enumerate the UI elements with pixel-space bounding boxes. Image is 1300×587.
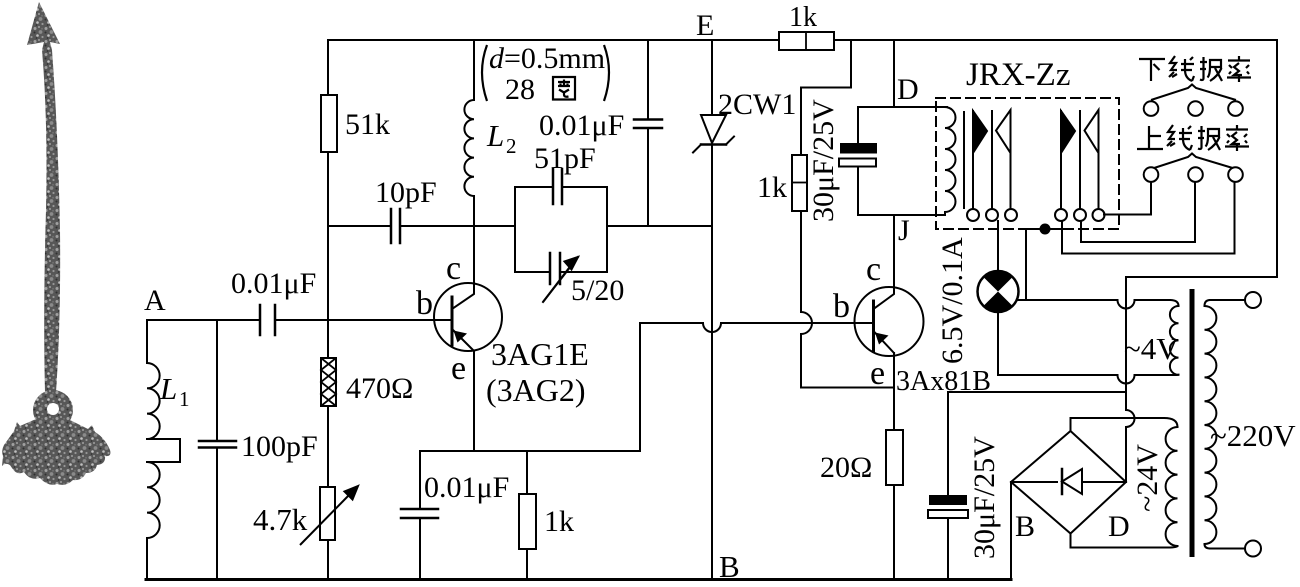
- svg-text:1k: 1k: [757, 171, 787, 204]
- svg-text:1k: 1k: [789, 2, 817, 33]
- svg-text:J: J: [898, 214, 910, 247]
- svg-text:e: e: [451, 350, 466, 387]
- svg-text:L: L: [159, 371, 177, 406]
- svg-text:10pF: 10pF: [375, 176, 437, 209]
- svg-text:D: D: [897, 73, 919, 106]
- svg-text:2CW1: 2CW1: [718, 88, 796, 121]
- svg-text:c: c: [446, 250, 461, 287]
- svg-text:(3AG2): (3AG2): [486, 372, 586, 408]
- svg-text:~24V: ~24V: [1131, 444, 1164, 512]
- svg-text:c: c: [866, 251, 881, 288]
- svg-text:A: A: [144, 284, 166, 317]
- svg-text:JRX-Zz: JRX-Zz: [966, 57, 1070, 93]
- svg-text:1: 1: [179, 387, 190, 411]
- svg-text:~220V: ~220V: [1210, 418, 1296, 453]
- svg-text:b: b: [416, 285, 433, 322]
- svg-text:6.5V/0.1A: 6.5V/0.1A: [936, 237, 969, 364]
- svg-text:100pF: 100pF: [241, 430, 318, 463]
- svg-text:470Ω: 470Ω: [346, 372, 413, 405]
- svg-text:d: d: [489, 42, 505, 75]
- svg-text:~4V: ~4V: [1124, 331, 1179, 366]
- svg-text:D: D: [1108, 510, 1130, 543]
- svg-text:51k: 51k: [345, 108, 390, 141]
- svg-text:L: L: [486, 118, 504, 153]
- svg-text:30μF/25V: 30μF/25V: [807, 99, 840, 222]
- svg-text:3Ax81B: 3Ax81B: [896, 366, 991, 397]
- svg-text:B: B: [1015, 510, 1035, 543]
- svg-text:30μF/25V: 30μF/25V: [968, 436, 1001, 559]
- svg-text:=0.5mm: =0.5mm: [504, 42, 605, 75]
- svg-text:2: 2: [506, 134, 517, 158]
- svg-text:0.01μF: 0.01μF: [424, 471, 509, 504]
- svg-text:51pF: 51pF: [534, 142, 596, 175]
- svg-text:4.7k: 4.7k: [253, 502, 308, 537]
- svg-text:0.01μF: 0.01μF: [539, 109, 624, 142]
- svg-text:E: E: [696, 9, 714, 42]
- svg-text:0.01μF: 0.01μF: [231, 267, 316, 300]
- svg-text:B: B: [719, 549, 740, 584]
- svg-text:b: b: [833, 288, 850, 325]
- svg-text:20Ω: 20Ω: [820, 451, 872, 484]
- svg-text:5/20: 5/20: [571, 274, 624, 307]
- svg-text:e: e: [870, 355, 885, 392]
- svg-text:1k: 1k: [544, 505, 574, 538]
- svg-text:28: 28: [505, 73, 535, 106]
- svg-text:3AG1E: 3AG1E: [491, 336, 589, 372]
